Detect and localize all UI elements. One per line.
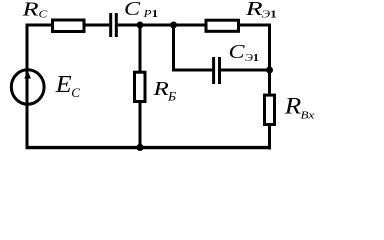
svg-text:Э1: Э1 <box>262 8 277 21</box>
svg-text:R: R <box>245 0 263 20</box>
svg-text:C: C <box>124 0 140 20</box>
svg-text:C: C <box>71 86 80 100</box>
svg-text:C: C <box>229 40 245 63</box>
svg-text:R: R <box>284 94 302 119</box>
svg-text:Вх: Вх <box>301 109 315 122</box>
svg-text:R: R <box>21 0 38 21</box>
svg-text:C: C <box>39 7 49 20</box>
svg-text:Б: Б <box>167 89 176 103</box>
svg-text:Э1: Э1 <box>245 52 259 64</box>
svg-text:R: R <box>152 77 169 99</box>
svg-text:E: E <box>55 72 72 98</box>
svg-text:Р1: Р1 <box>142 7 158 20</box>
